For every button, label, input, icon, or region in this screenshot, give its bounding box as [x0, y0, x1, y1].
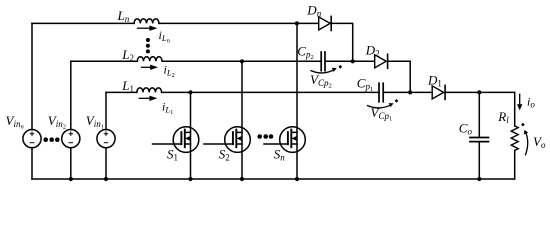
junction: Sn source on bottom rail [295, 177, 299, 181]
current arrow iL2 [141, 65, 158, 70]
voltage arrow VCp1 [367, 99, 398, 108]
diode Dn [319, 16, 332, 30]
wire: D1 cathode to output corner [445, 91, 515, 93]
current arrow iL1 [139, 96, 158, 101]
wire: left edge Vin_n branch [31, 23, 33, 179]
junction: Co bottom on bottom rail [477, 177, 481, 181]
current arrow io [517, 94, 522, 111]
wire: output right edge lower [514, 150, 516, 179]
wire: Vin_2 vertical [70, 61, 72, 179]
voltage arrow Vo [521, 123, 528, 156]
svg-text:Vin2: Vin2 [48, 113, 66, 131]
capacitor Co branch wire upper [478, 92, 480, 137]
wire: top branch from left edge to inductor Ln [32, 22, 134, 24]
inductor L2 [137, 57, 162, 62]
svg-text:iLn: iLn [159, 28, 170, 45]
svg-text:D2: D2 [365, 43, 380, 59]
capacitor Cp1 [379, 83, 383, 102]
source Vin_1 [97, 130, 115, 148]
resistor Rl [511, 126, 518, 150]
junction: S2 source on bottom rail [240, 177, 244, 181]
diode D2 [375, 54, 388, 68]
wire: Ln to Dn anode [159, 22, 319, 24]
junction: S1 drain on L1 line [188, 90, 192, 94]
svg-text:L2: L2 [121, 47, 134, 63]
dots: ellipsis between S2 and Sn [257, 134, 262, 139]
capacitor Cp2 [321, 52, 325, 71]
capacitor Co [470, 138, 488, 142]
svg-text:Vin1: Vin1 [86, 113, 104, 131]
capacitor Co branch wire lower [478, 142, 480, 179]
svg-text:io: io [527, 95, 535, 110]
wire: Dn cathode down to node after Cp2 [331, 23, 353, 61]
wire: L2 branch from Vin_2 corner to inductor L2 [71, 60, 138, 62]
svg-text:D1: D1 [427, 72, 442, 88]
inductor Ln [134, 19, 159, 24]
svg-text:Cp1: Cp1 [357, 75, 373, 93]
svg-text:Ln: Ln [117, 8, 130, 24]
junction: Sn drain on Ln line [295, 21, 299, 25]
svg-text:iL2: iL2 [164, 63, 175, 80]
wire: L1 to capacitor Cp1 [162, 91, 379, 93]
junction: Vin_1 on bottom rail [104, 177, 108, 181]
dots: ellipsis between Vin_n and Vin_2 [43, 137, 48, 142]
source Vin_n [23, 130, 41, 148]
junction: Dn return on L2 line [351, 59, 355, 63]
dots: vertical ellipsis between Ln and L2 [146, 38, 150, 42]
svg-text:VCp2: VCp2 [310, 72, 332, 90]
source Vin_2 [62, 130, 80, 148]
junction: S2 drain on L2 line [240, 59, 244, 63]
transistor S1 [153, 92, 199, 179]
junction: Co top on main line [477, 90, 481, 94]
svg-text:iL1: iL1 [162, 100, 173, 117]
svg-text:Dn: Dn [306, 3, 321, 19]
junction: Vin_2 on bottom rail [69, 177, 73, 181]
wire: L1 branch from Vin_1 corner to inductor L1 [106, 91, 137, 93]
wire: bottom rail [32, 178, 515, 180]
wire: Cp1 to D1 anode [383, 91, 432, 93]
inductor L1 [137, 88, 162, 92]
svg-text:Cp2: Cp2 [297, 44, 313, 62]
wire: Vin_1 vertical [105, 92, 107, 179]
wire: Cp2 to D2 anode [325, 60, 375, 62]
wire: D2 cathode down to main line [388, 61, 411, 92]
svg-text:Rl: Rl [497, 109, 509, 125]
diode D1 [432, 85, 445, 99]
svg-text:L1: L1 [121, 78, 134, 94]
svg-text:Co: Co [459, 121, 473, 137]
voltage arrow VCp2 [310, 65, 342, 73]
wire: output right edge upper [514, 92, 516, 126]
wire: L2 to capacitor Cp2 [162, 60, 321, 62]
current arrow iLn [137, 26, 158, 31]
svg-text:Vo: Vo [533, 134, 546, 150]
transistor Sn [264, 23, 305, 179]
junction: S1 source on bottom rail [188, 177, 192, 181]
transistor S2 [204, 61, 250, 179]
junction: D2 return on main line [408, 90, 412, 94]
svg-text:Vinn: Vinn [6, 113, 24, 131]
